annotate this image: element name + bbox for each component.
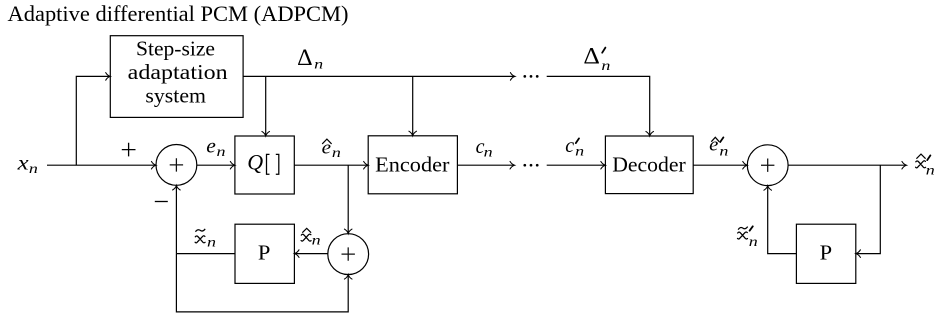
svg-text:n: n	[749, 235, 758, 250]
wire: Delta_n line from step-size box	[243, 73, 515, 81]
adder circle 3	[747, 145, 788, 186]
wire: branch down into Encoder top	[409, 76, 417, 135]
label x_n (input signal)	[16, 152, 38, 177]
wire: branch down into Q top	[262, 76, 270, 136]
svg-text:adaptation: adaptation	[128, 62, 229, 84]
wire: branch down from xhat'_n into P (decoder side)	[856, 165, 881, 257]
svg-text:system: system	[145, 85, 206, 107]
wire: Q to Encoder	[294, 161, 368, 169]
svg-text:Q: Q	[247, 149, 263, 174]
wire: Decoder to adder3	[693, 161, 747, 169]
svg-text:n: n	[484, 145, 493, 160]
wire: branch up to step-size box	[76, 73, 110, 166]
svg-text:n: n	[217, 145, 226, 160]
wire: P (decoder side) output up into adder3 bottom	[764, 186, 797, 254]
svg-text:n: n	[314, 57, 323, 72]
wire: xtilde_n bottom feedback into adder2 bottom	[176, 254, 352, 312]
label Delta'_n	[583, 43, 610, 74]
adder circle 2	[328, 234, 369, 275]
label ehat_n	[322, 137, 341, 161]
label ehat'_n	[709, 136, 728, 160]
svg-text:Encoder: Encoder	[375, 153, 449, 177]
box: quantizer Q[ ]	[235, 136, 294, 194]
svg-text:e: e	[206, 136, 216, 158]
adder circle 1	[156, 145, 197, 186]
dots (channel ellipsis, bottom)	[523, 164, 538, 167]
box: Step-size adaptation system	[110, 36, 243, 118]
label c_n	[476, 136, 493, 161]
wire: adder2 output to P (encoder side)	[294, 250, 327, 258]
label e_n	[206, 136, 225, 160]
box: Decoder	[605, 136, 693, 194]
wire: xtilde_n up into adder1 bottom (minus input)	[173, 185, 181, 253]
label + (adder1 upper input sign)	[122, 143, 136, 157]
label xtilde_n	[195, 229, 216, 251]
dots (channel ellipsis, top)	[523, 75, 538, 78]
svg-text:n: n	[312, 234, 321, 249]
wire: P (encoder side) output left to adder1 branch node	[176, 253, 235, 255]
label xtilde'_n	[738, 226, 758, 250]
label xhat'_n (reconstructed output)	[916, 154, 935, 178]
svg-text:Decoder: Decoder	[612, 153, 686, 177]
wire: adder1 to Q	[197, 161, 235, 169]
box: predictor P (encoder side)	[235, 224, 294, 283]
svg-text:c: c	[565, 135, 574, 157]
svg-text:P: P	[820, 241, 833, 265]
box: predictor P (decoder side)	[796, 224, 855, 283]
wire: branch down from ehat_n into adder2 top	[344, 165, 352, 234]
svg-text:n: n	[601, 59, 610, 74]
svg-text:Adaptive differential PCM (ADP: Adaptive differential PCM (ADPCM)	[8, 1, 349, 26]
svg-text:Δ: Δ	[297, 45, 313, 70]
svg-text:n: n	[926, 163, 935, 178]
label c'_n	[565, 135, 584, 160]
svg-text:Step-size: Step-size	[136, 39, 215, 61]
wire: Delta'_n line resuming, down into Decoder top	[547, 76, 654, 136]
svg-text:n: n	[719, 145, 728, 160]
svg-text:x: x	[16, 152, 28, 174]
svg-text:n: n	[29, 162, 38, 177]
label xhat_n	[301, 228, 321, 248]
label minus (adder1 lower input sign)	[155, 201, 168, 203]
wire: x_n input line	[47, 161, 156, 169]
wire: adder3 output to xhat'_n	[788, 161, 906, 169]
box: Encoder	[368, 136, 457, 194]
svg-text:n: n	[332, 146, 341, 161]
wire: channel to Decoder	[547, 161, 606, 169]
svg-text:n: n	[207, 235, 216, 250]
svg-text:n: n	[575, 145, 584, 160]
svg-text:P: P	[258, 241, 271, 265]
label Delta_n	[297, 45, 323, 73]
svg-text:Δ: Δ	[583, 43, 600, 68]
wire: Encoder to channel dots	[457, 161, 514, 169]
